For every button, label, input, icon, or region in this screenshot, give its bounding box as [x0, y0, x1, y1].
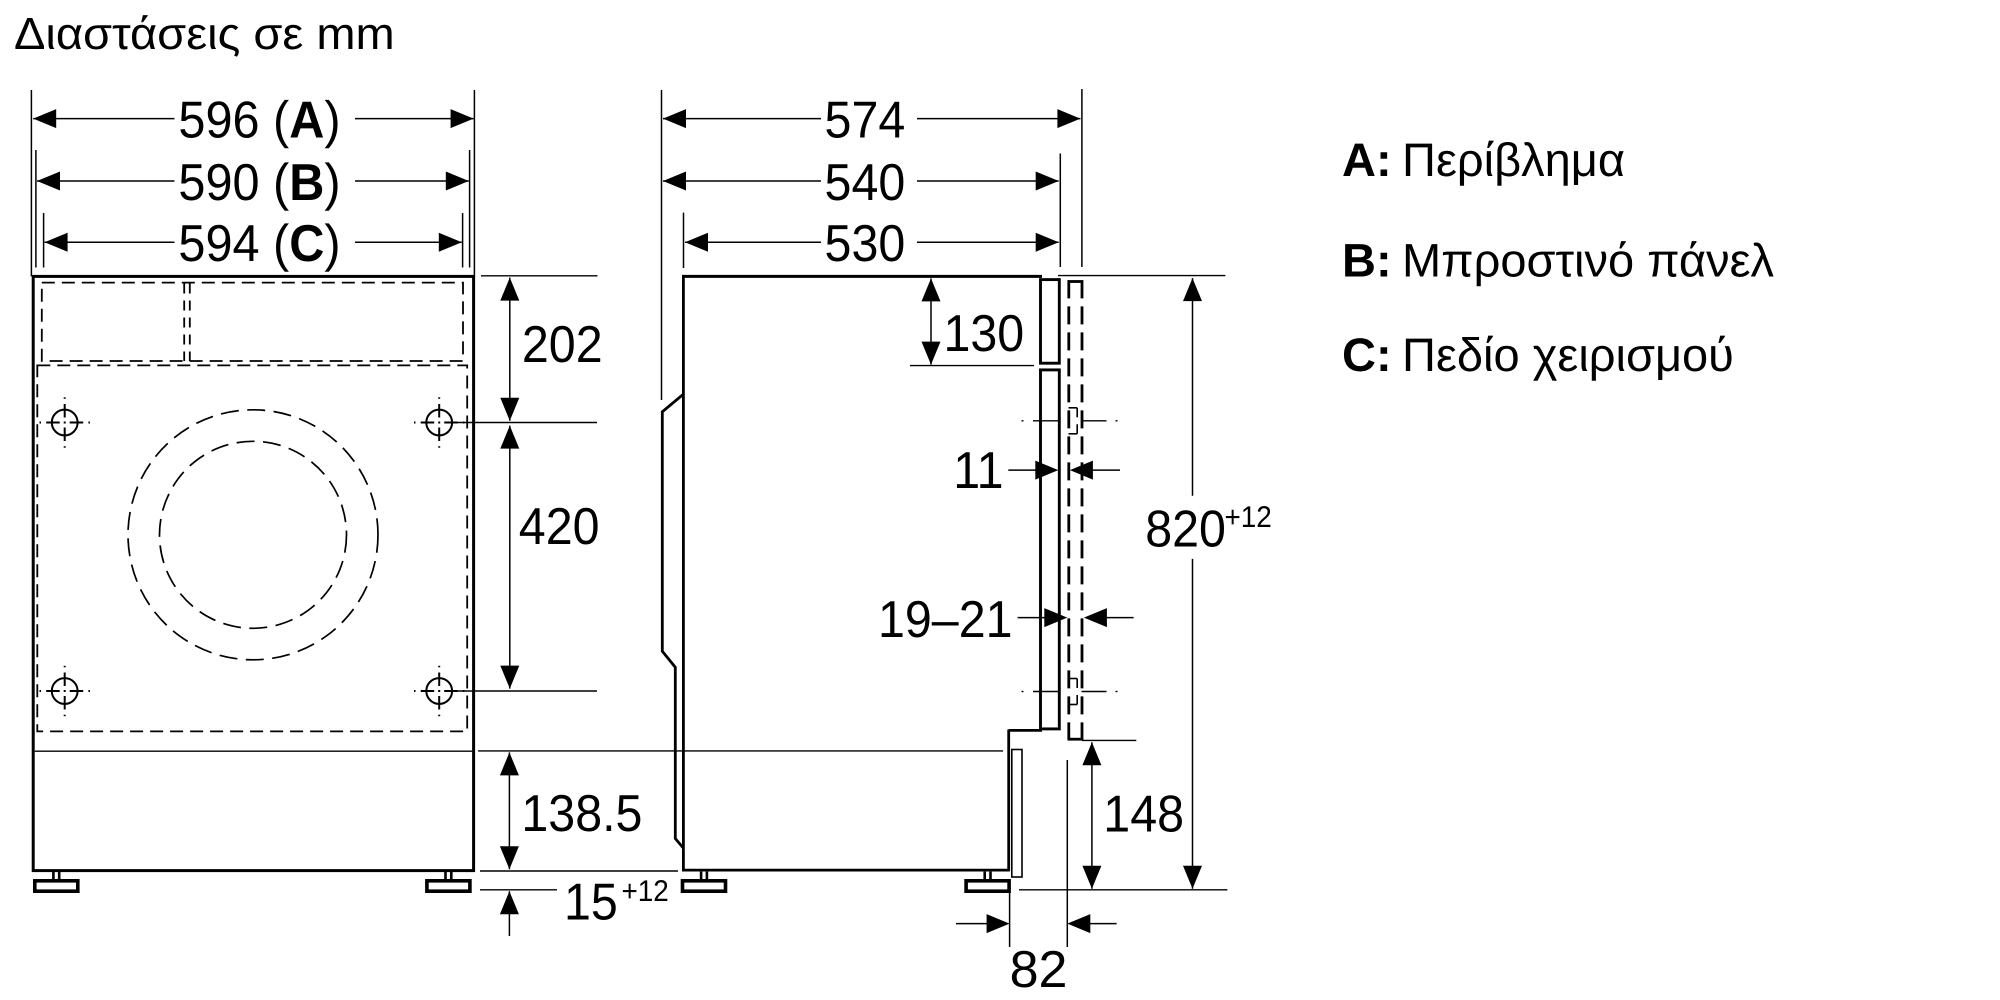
svg-text:Πεδίο χειρισμού: Πεδίο χειρισμού [1402, 328, 1734, 381]
svg-text:130: 130 [944, 305, 1025, 363]
svg-text:202: 202 [522, 316, 603, 374]
svg-text:Διαστάσεις σε mm: Διαστάσεις σε mm [14, 8, 395, 59]
svg-text:19–21: 19–21 [878, 591, 1012, 649]
svg-text:530: 530 [825, 215, 906, 273]
svg-text:420: 420 [519, 498, 600, 556]
svg-text:148: 148 [1103, 786, 1184, 844]
svg-text:B:: B: [1342, 234, 1392, 287]
svg-text:11: 11 [953, 442, 1003, 500]
svg-text:Περίβλημα: Περίβλημα [1402, 133, 1625, 186]
svg-text:540: 540 [825, 154, 906, 212]
svg-text:A:: A: [1342, 133, 1392, 186]
svg-text:138.5: 138.5 [521, 785, 642, 843]
svg-text:594 (C): 594 (C) [178, 215, 340, 273]
svg-text:Μπροστινό πάνελ: Μπροστινό πάνελ [1402, 234, 1775, 287]
svg-text:+12: +12 [622, 875, 669, 908]
svg-text:C:: C: [1342, 328, 1392, 381]
svg-text:574: 574 [825, 92, 906, 150]
svg-text:+12: +12 [1225, 501, 1272, 534]
svg-text:15: 15 [564, 874, 618, 932]
svg-text:820: 820 [1145, 501, 1226, 559]
svg-text:590 (B): 590 (B) [178, 154, 340, 212]
svg-text:82: 82 [1010, 941, 1068, 999]
svg-text:596 (A): 596 (A) [178, 92, 340, 150]
